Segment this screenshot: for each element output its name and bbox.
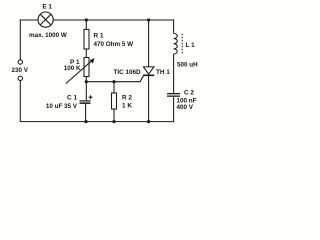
wire R2 top lead bbox=[113, 82, 115, 93]
junction node top R1 bbox=[85, 18, 88, 21]
svg-text:100 K: 100 K bbox=[64, 65, 81, 72]
junction node gate/R2 bbox=[112, 80, 115, 83]
wire C1 to bottom rail bbox=[85, 104, 87, 122]
wire middle column top lead of R1 bbox=[85, 20, 87, 29]
inductor core dashed bbox=[181, 34, 183, 54]
plus sign C1 bbox=[89, 95, 93, 99]
capacitor C1 bbox=[80, 100, 91, 104]
junction node gate/P1/C1 bbox=[85, 80, 88, 83]
svg-text:230 V: 230 V bbox=[12, 67, 29, 74]
wire right rail top to inductor bbox=[173, 19, 175, 33]
lamp E1 bbox=[38, 12, 53, 27]
wire top-left from corner to lamp bbox=[20, 19, 38, 21]
wire gate horizontal bbox=[86, 76, 143, 82]
wire anode lead TH1 bbox=[148, 20, 150, 67]
svg-text:C 2: C 2 bbox=[184, 90, 194, 97]
potentiometer P1 bbox=[66, 58, 95, 84]
svg-text:R 1: R 1 bbox=[94, 33, 104, 40]
wire left rail lower bbox=[19, 81, 21, 122]
thyristor TH1 bbox=[143, 67, 154, 75]
svg-text:500 uH: 500 uH bbox=[177, 62, 198, 69]
wire R2 bottom lead bbox=[113, 109, 115, 122]
svg-text:R 2: R 2 bbox=[122, 95, 132, 102]
resistor R1 bbox=[84, 29, 89, 49]
svg-text:max. 1000 W: max. 1000 W bbox=[29, 32, 67, 39]
junction node bottom C1 bbox=[84, 120, 87, 123]
svg-text:TIC 106D: TIC 106D bbox=[114, 69, 141, 76]
wire right rail C2 to bottom bbox=[173, 97, 175, 122]
wire top from lamp to right corner bbox=[53, 19, 173, 21]
wire right rail inductor to C2 bbox=[173, 54, 175, 93]
svg-text:L 1: L 1 bbox=[186, 42, 196, 49]
terminal lower 230V bbox=[18, 76, 22, 80]
svg-text:TH 1: TH 1 bbox=[156, 69, 170, 76]
svg-text:C 1: C 1 bbox=[67, 95, 77, 102]
wire P1 to gate node bbox=[85, 77, 87, 82]
svg-text:1 K: 1 K bbox=[122, 103, 132, 110]
wire R1 to P1 bbox=[85, 49, 87, 58]
svg-text:470 Ohm 5 W: 470 Ohm 5 W bbox=[94, 41, 134, 48]
svg-text:10 uF 35 V: 10 uF 35 V bbox=[46, 103, 78, 110]
junction node top TH1 bbox=[147, 18, 150, 21]
terminal upper 230V bbox=[18, 60, 22, 64]
wire cathode lead TH1 bbox=[148, 76, 150, 122]
inductor L1 bbox=[174, 33, 178, 54]
junction node bottom TH1 bbox=[147, 120, 150, 123]
resistor R2 bbox=[112, 93, 117, 109]
wire left rail upper bbox=[19, 19, 21, 59]
svg-text:400 V: 400 V bbox=[177, 104, 194, 111]
junction node bottom R2 bbox=[112, 120, 115, 123]
capacitor C2 bbox=[167, 93, 180, 97]
wire bottom rail bbox=[20, 121, 174, 123]
wire gate node to C1 bbox=[85, 82, 87, 101]
svg-text:E 1: E 1 bbox=[42, 4, 52, 11]
